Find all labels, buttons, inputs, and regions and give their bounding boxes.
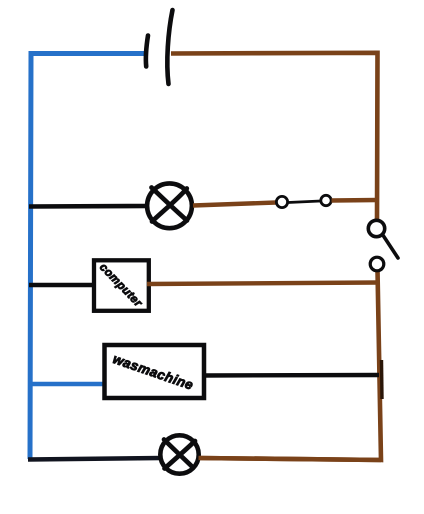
wire brown from battery to top-right corner and down to switch [171,53,378,221]
battery B1 negative plate [146,36,148,67]
wire black bottom row [28,458,161,460]
wire black computer row [29,283,95,287]
wire brown switch to right rail [332,198,378,203]
lamp L2 [160,435,198,473]
wire blue branch to wasmachine [30,382,105,387]
wire black lamp row [29,204,147,209]
lamp L1 [147,183,192,228]
wire brown bottom lamp to corner [199,458,382,460]
wire brown computer to right rail [147,283,379,285]
wire black wasmachine to right rail [203,373,379,378]
wasmachine box U2 [105,345,205,398]
computer box U1 [94,260,149,311]
wire blue left rail [30,54,146,460]
battery B1 positive plate [167,10,172,84]
wire dark overlap segment on right rail [380,360,384,399]
switch S1 closed [276,195,331,207]
wire brown lamp to switch [193,203,276,206]
wire brown right rail below switch to bottom corner [198,270,381,460]
switch S2 open [368,220,398,271]
